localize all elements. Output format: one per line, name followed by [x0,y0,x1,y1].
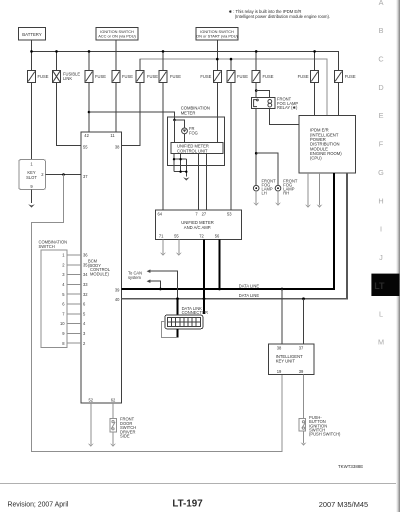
svg-text:AND A/C AMP.: AND A/C AMP. [184,225,211,230]
svg-text:L: L [379,309,383,318]
svg-text:METER: METER [181,110,196,115]
fuse F9 [252,71,273,83]
fuse F5 [136,71,158,83]
svg-text:RELAY (✱): RELAY (✱) [277,105,298,110]
intelligent key unit U6 [269,344,315,374]
push-button ignition switch SW2 [299,415,341,437]
wire key slot branch to intelligent key unit pin 19 [31,175,282,452]
svg-text:39: 39 [115,287,120,292]
svg-text:(Intelligent power distributio: (Intelligent power distribution module e… [235,14,330,19]
svg-text:A: A [379,0,384,7]
wire key slot ground [31,189,33,203]
svg-text:27: 27 [202,212,207,217]
wire LH lamp ground [255,191,257,203]
svg-text:37: 37 [299,346,304,351]
wire unified meter amp ground 71 [162,239,164,253]
sidebar section letters [378,0,384,346]
svg-text:SLOT: SLOT [26,175,37,180]
svg-text:B: B [379,26,384,35]
ignition switch ON/START box [196,28,239,41]
node data line 2 junctions [176,297,305,300]
IPDM E/R U5 [299,116,356,174]
wire F10 to IPDM [314,51,316,115]
ground arrow BCM 52 [88,443,94,446]
bus line 1 (battery) [32,51,339,115]
wire IKU pin 39 to push button switch [303,374,305,418]
unified meter and A/C amp U4 [156,210,242,239]
fuse F4 [112,71,133,83]
wire door switch ground [112,432,114,444]
svg-text:52: 52 [89,397,94,402]
wire data pin 72 to data line 2 and DLC [203,239,205,314]
FR FOG indicator lamp [182,126,198,136]
svg-text:53: 53 [227,212,232,217]
node F3 branch junction [88,111,91,114]
wire F9 to fog lamp relay [255,51,257,97]
svg-text:71: 71 [159,234,164,239]
svg-text:34: 34 [83,272,88,277]
fuse F7 [200,71,221,83]
fuse F1 [28,71,49,83]
svg-text:33: 33 [83,282,88,287]
wire IPDM CAN-H to data line 1 [121,173,334,289]
node bus2 junctions [216,58,232,61]
fusible link F2 [53,71,81,83]
wire UMCU ground cluster [173,154,188,177]
svg-text:FUSE: FUSE [170,74,181,79]
svg-text:32: 32 [83,292,88,297]
svg-text:19: 19 [277,369,282,374]
svg-text:LINK: LINK [63,76,72,81]
svg-text:SWITCH: SWITCH [39,244,55,249]
combination switch SW1 [39,240,68,348]
LT section tab [371,274,399,296]
ground arrow 71 [160,252,166,255]
ground arrow door switch [110,443,116,446]
svg-text:I: I [380,225,382,234]
fuse F10 [298,71,319,83]
wire key slot pin2 to BCM pin 37 [45,174,81,176]
wire UMCU pins to unified meter amp pins 7 27 [199,154,207,211]
svg-text:(PUSH SWITCH): (PUSH SWITCH) [309,432,341,437]
svg-text:MODULE): MODULE) [90,272,110,277]
ground arrow key slot [28,204,35,207]
svg-text:FUSE: FUSE [122,74,133,79]
svg-text:FUSE: FUSE [95,74,106,79]
svg-text:64: 64 [158,212,163,217]
wire BCM pin 62 to door switch [112,403,114,419]
svg-text:38: 38 [277,346,282,351]
To CAN system arrows [128,269,178,298]
data link connector J1 [165,299,208,329]
svg-text:FUSE: FUSE [298,74,309,79]
svg-text:KEY UNIT: KEY UNIT [276,359,296,364]
svg-text:55: 55 [174,234,179,239]
svg-text:BATTERY: BATTERY [22,32,42,37]
wire F6 to unified meter amp pin 64 [162,51,164,210]
wire F8 to unified meter amp pin 53 [230,59,232,210]
svg-text:D: D [378,83,383,92]
wire IKU pin 37 to data line 2 [303,299,305,344]
ground arrow push switch [301,442,307,445]
key slot U2 [19,160,45,190]
svg-text:E: E [379,111,384,120]
fuse F11 [334,71,355,83]
svg-text:40: 40 [115,297,120,302]
front fog lamp relay RLY1 [251,97,298,111]
wire IKU pin 38 to data line 1 [281,289,283,344]
wire ignition2 to UMCU via F7 [216,40,218,142]
svg-text:(CPU): (CPU) [310,156,322,161]
wire DLC shield loop [162,322,178,338]
svg-text:F: F [379,140,384,149]
svg-text:FOG: FOG [189,131,198,136]
svg-text:J: J [379,253,383,262]
wire IPDM ground 2 [319,173,321,205]
wire battery feed column F1 [31,40,33,160]
svg-text:37: 37 [83,174,88,179]
wire BCM pin 52 ground [90,403,92,444]
svg-text:10: 10 [60,321,65,326]
svg-text:35: 35 [83,262,88,267]
svg-text:36: 36 [83,253,88,258]
svg-text:39: 39 [299,369,304,374]
node comb meter feed junction [173,119,176,122]
bus line 2 (ignition) [140,59,327,115]
wire relay contact feed [256,91,269,98]
svg-text:38: 38 [115,145,120,150]
svg-text:2007 M35/M45: 2007 M35/M45 [319,500,368,509]
svg-text:LH: LH [262,190,267,195]
node key slot branch [62,173,65,176]
wire data pin 56 to data line 1 [219,239,221,289]
svg-text:55: 55 [83,145,88,150]
wire ignition1 to BCM pin 11 via F4 [115,40,117,132]
svg-text:62: 62 [111,397,116,402]
svg-text:FUSE: FUSE [38,74,49,79]
svg-text:42: 42 [84,133,89,138]
ground arrow LH lamp [253,202,259,205]
ground arrow IPDM 2 [317,204,323,207]
ground arrow RH lamp [275,202,281,205]
svg-text:FUSE: FUSE [147,74,158,79]
wire RH lamp ground [277,191,279,203]
svg-text:56: 56 [215,234,220,239]
svg-text:ACC or ON (via PDU): ACC or ON (via PDU) [98,34,136,39]
wire IPDM ground 1 [307,173,309,205]
svg-text:M: M [378,337,384,346]
wire branch to RH lamp [256,153,278,185]
svg-text:ON or START (via PDU): ON or START (via PDU) [196,34,238,39]
svg-text:SIDE: SIDE [120,434,130,439]
svg-text:CONTROL UNIT: CONTROL UNIT [177,148,208,153]
svg-text:FUSE: FUSE [345,74,356,79]
svg-text:FUSE: FUSE [200,74,211,79]
BCM (body control module) [81,132,121,403]
node bus1 junctions [30,50,316,53]
wire relay output to fog lamps [255,109,257,186]
svg-text:RH: RH [283,190,289,195]
wire relay coil to IPDM [270,109,299,125]
fuse F8 [227,71,248,83]
footer separator [0,483,400,485]
svg-text:H: H [378,196,383,205]
svg-text:DATA LINE: DATA LINE [239,283,260,288]
svg-text:LT-197: LT-197 [172,499,203,510]
node fog lamp branch [255,152,258,155]
wire IPDM CAN-L to data line 2 [121,173,347,299]
ground arrow comb meter [183,177,189,180]
node relay feed junction [255,89,258,92]
ground arrow IPDM 1 [305,204,311,207]
front door switch driver side SW3 [110,417,136,439]
svg-text:C: C [378,55,383,64]
svg-text:CONNECTOR: CONNECTOR [182,310,208,315]
wire F3 to BCM pin 42 [88,51,90,131]
ignition switch ACC/ON box [96,28,138,41]
svg-text:LT: LT [374,281,385,291]
svg-text:system: system [128,275,142,280]
svg-text:FUSE: FUSE [237,74,248,79]
svg-text:G: G [378,168,384,177]
front fog lamp LH [253,179,276,196]
svg-text:72: 72 [199,234,204,239]
svg-text:11: 11 [110,133,115,138]
wire F5 to BCM pin 38 [121,59,140,145]
front fog lamp RH [275,179,298,196]
wire F2 to BCM pin 55 [57,51,82,145]
fuse F6 [159,71,181,83]
node data line 1 junctions [159,288,283,291]
combination meter box [167,106,224,166]
fuse F3 [85,71,106,83]
wire unified meter amp ground 55 [178,239,180,253]
unified meter control unit U3 [171,142,223,153]
ground arrow 55 [176,252,182,255]
wire push switch ground [303,431,305,443]
svg-text:FUSE: FUSE [263,74,274,79]
wire comb meter internal feed [175,120,185,142]
wires combination switch to BCM [67,255,81,343]
svg-text:TKWT3388E: TKWT3388E [338,464,363,469]
svg-text:Revision; 2007 April: Revision; 2007 April [8,502,69,509]
wire F3 branch to combination meter [89,112,175,120]
note: relay built into IPDM E/R [229,9,330,19]
svg-text:DATA LINE: DATA LINE [239,293,260,298]
battery B1 [18,27,45,40]
